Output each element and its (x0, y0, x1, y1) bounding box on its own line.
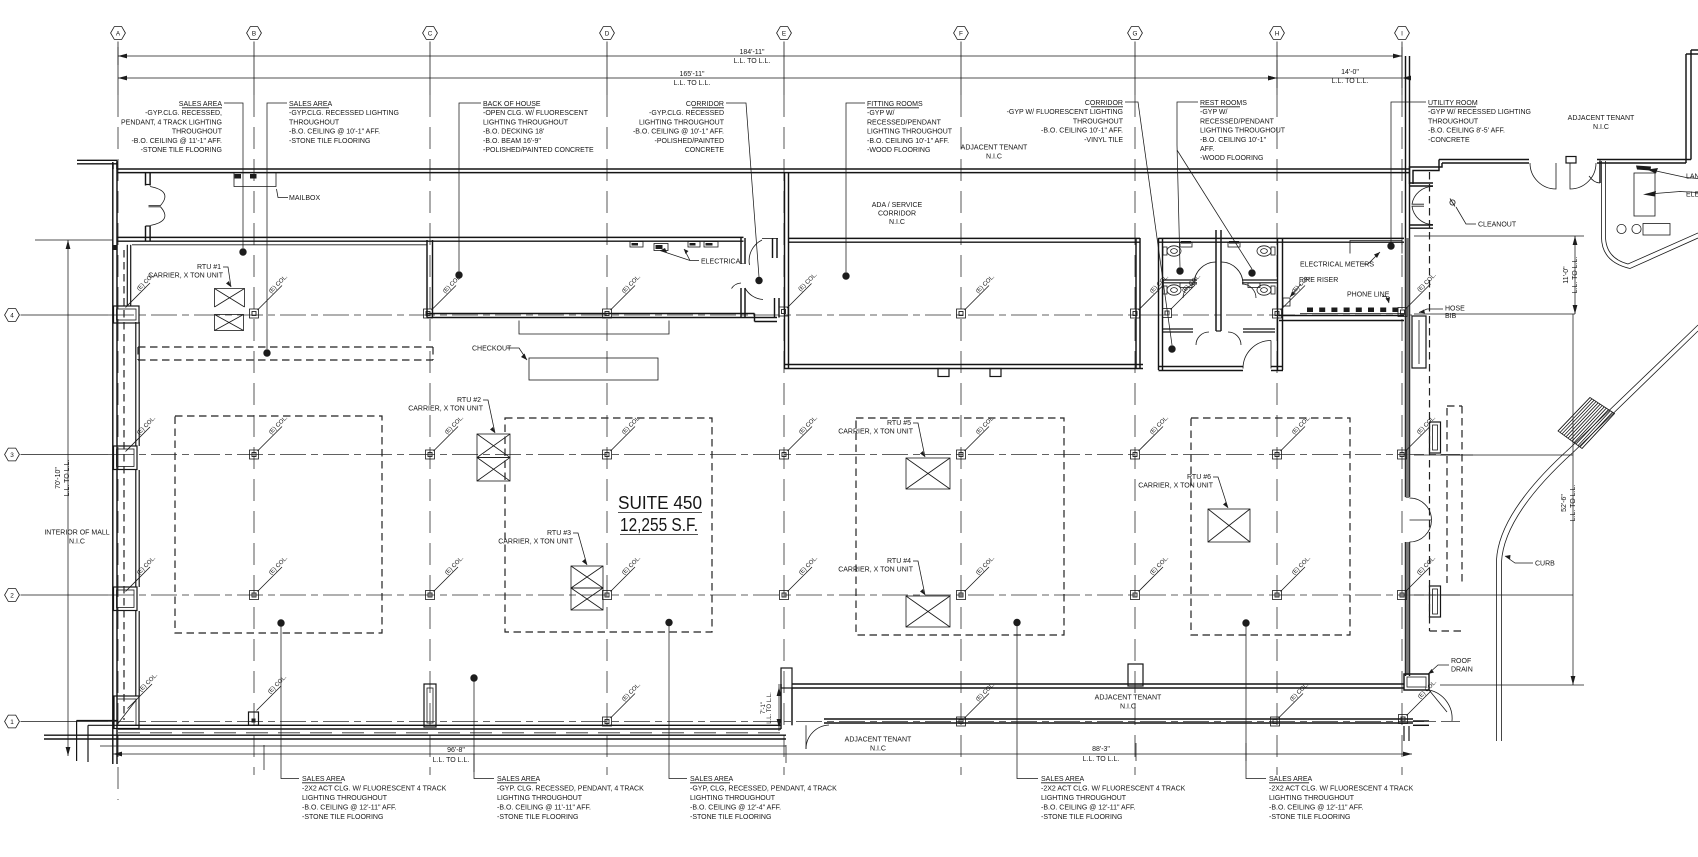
wall: restrooms west wall (1158, 238, 1160, 370)
column label grid3-430 (434, 427, 459, 452)
toilet left room upper (1163, 247, 1167, 255)
leader dot at 281,623 (277, 619, 284, 626)
grid line column B (solid stub from bubble) (253, 42, 255, 96)
svg-text:RTU #1: RTU #1 (197, 264, 221, 271)
door: adjacent tenant door at south step (805, 725, 807, 749)
svg-text:CORRIDOR: CORRIDOR (686, 101, 724, 108)
grid row 4 extension line / hose bib line (right) (1414, 313, 1575, 315)
svg-text:L.L. TO L.L.: L.L. TO L.L. (1572, 257, 1579, 294)
svg-text:L.L. TO L.L.: L.L. TO L.L. (64, 460, 71, 497)
column label grid3-784 (788, 427, 813, 452)
svg-text:-B.O. CEILING 8'-5' AFF.: -B.O. CEILING 8'-5' AFF. (1428, 128, 1505, 135)
column marker restroom west wall row4 (1163, 309, 1172, 318)
column label I row4 (1406, 284, 1431, 309)
svg-text:RTU #4: RTU #4 (887, 558, 911, 565)
grid line row 2 (solid stub from bubble) (21, 594, 109, 596)
svg-text:CHECKOUT: CHECKOUT (472, 346, 512, 353)
svg-text:PHONE LINE: PHONE LINE (1347, 292, 1390, 299)
svg-text:70'-10": 70'-10" (55, 467, 62, 489)
hatched concrete pad on curb (1558, 398, 1615, 449)
svg-text:N.I.C: N.I.C (69, 539, 85, 546)
grid bubble column C (423, 27, 438, 40)
grid line row 2 (dashed) (108, 594, 1460, 596)
svg-text:HOSE: HOSE (1445, 306, 1465, 313)
grid line row 1 (solid stub from bubble) (21, 721, 109, 723)
svg-text:-STONE TILE FLOORING: -STONE TILE FLOORING (690, 814, 771, 821)
column label grid3-254 (258, 427, 283, 452)
adjacent tenant storefront wall (north-east) (1410, 163, 1443, 184)
door: east wall door at service band (1410, 182, 1433, 184)
column marker grid3-1135 (1131, 450, 1140, 459)
svg-text:L.L. TO L.L.: L.L. TO L.L. (767, 692, 773, 724)
svg-text:L.L. TO L.L.: L.L. TO L.L. (1332, 78, 1369, 85)
svg-text:N.I.C: N.I.C (870, 746, 886, 753)
svg-text:RTU #3: RTU #3 (547, 530, 571, 537)
column marker grid3-607 (603, 450, 612, 459)
svg-text:96'-8": 96'-8" (447, 747, 465, 754)
svg-text:1: 1 (10, 719, 14, 726)
wall: fitting rooms north wall (788, 237, 1140, 239)
svg-text:CONCRETE: CONCRETE (685, 147, 725, 154)
svg-text:-B.O. CEILING @ 10'-1" AFF.: -B.O. CEILING @ 10'-1" AFF. (289, 129, 380, 136)
door: service corridor lower door (745, 288, 763, 300)
column label grid2-607 (611, 567, 636, 592)
RTU #3 unit symbol (571, 566, 603, 588)
svg-text:REST ROOMS: REST ROOMS (1200, 100, 1247, 107)
column label grid4-254 (258, 286, 283, 311)
leader dot at 669,622.5 (665, 619, 672, 626)
svg-text:LIGHTING THROUGHOUT: LIGHTING THROUGHOUT (1200, 128, 1286, 135)
column label A wall (128, 684, 153, 709)
wall: back-of-house east wall lower (740, 288, 742, 318)
svg-text:SALES AREA: SALES AREA (302, 776, 346, 783)
svg-text:CORRIDOR: CORRIDOR (1085, 100, 1123, 107)
door: mall entry double door upper leaf (149, 187, 165, 206)
dashed soffit line along west wall (123, 250, 125, 720)
svg-text:ADJACENT TENANT: ADJACENT TENANT (961, 145, 1028, 152)
column label grid1-607 (611, 694, 636, 719)
grid row 3 extension line (right) (1414, 454, 1573, 456)
column label grid3-1135 (1139, 427, 1164, 452)
dimension line 52'-6" LL. TO LL. (right) (1572, 314, 1574, 685)
svg-text:CARRIER, X TON UNIT: CARRIER, X TON UNIT (498, 539, 574, 546)
column label restroom west wall row4 (1171, 285, 1196, 310)
dashed ceiling soffit rectangle 1 (175, 416, 382, 633)
leader dot at 759,280.5 (755, 277, 762, 284)
curb curve with hatched pad (1497, 325, 1698, 741)
tenant wall corner return down to walkway (1599, 161, 1601, 184)
svg-text:-GYP W/: -GYP W/ (1200, 109, 1228, 116)
svg-text:H: H (1275, 31, 1280, 38)
svg-text:CLEANOUT: CLEANOUT (1478, 222, 1517, 229)
wall: restrooms south wall (1159, 366, 1244, 368)
svg-text:L.L. TO L.L.: L.L. TO L.L. (433, 757, 470, 764)
grid line column I (dashed) (1401, 95, 1403, 775)
dimension line 96'-8" LL. TO LL. (bottom-left) (113, 753, 786, 755)
svg-text:-B.O. CEILING @ 11'-11" AFF.: -B.O. CEILING @ 11'-11" AFF. (497, 805, 591, 812)
column marker grid2-1135 (1131, 591, 1140, 600)
svg-text:CARRIER, X TON UNIT: CARRIER, X TON UNIT (1138, 483, 1214, 490)
column marker grid2-430 (426, 591, 435, 600)
svg-text:E: E (782, 31, 786, 38)
wall: fitting rooms south wall (785, 364, 1144, 366)
column marker grid3-1402 (1398, 450, 1407, 459)
sidewalk edge curve (1606, 161, 1698, 264)
grid line row 4 (solid stub from bubble) (21, 314, 109, 316)
column marker grid4-1135 (1131, 309, 1140, 318)
door: restroom lower-left small arc (1196, 332, 1209, 345)
mailbox niche in north wall (234, 173, 276, 187)
column label grid3-961 (965, 427, 990, 452)
svg-text:FITTING ROOMS: FITTING ROOMS (867, 101, 923, 108)
column label grid4-428 (432, 286, 457, 311)
column marker corridor row4 (779, 307, 788, 316)
svg-text:B: B (252, 31, 256, 38)
door: mall entry double door lower leaf (149, 207, 165, 226)
leader dot at 267,353 (263, 349, 270, 356)
svg-text:C: C (428, 31, 433, 38)
grid line column C (dashed) (429, 95, 431, 775)
svg-text:3: 3 (10, 452, 14, 459)
wall: back-of-house west wall (426, 240, 428, 318)
column label I row1 (1407, 691, 1432, 716)
svg-text:CARRIER, X TON UNIT: CARRIER, X TON UNIT (838, 429, 914, 436)
svg-text:-WOOD FLOORING: -WOOD FLOORING (1200, 155, 1263, 162)
wall: bottom-left exterior step (77, 720, 118, 722)
storefront pier right of east wall (1412, 316, 1426, 368)
column marker grid4-961 (957, 309, 966, 318)
svg-text:52'-6": 52'-6" (1561, 494, 1568, 512)
column enclosure on west wall (grid A row box 2) (114, 587, 138, 611)
exterior small rectangle (1643, 224, 1670, 236)
small solid block at west wall top (113, 245, 117, 250)
svg-text:LIGHTING THROUGHOUT: LIGHTING THROUGHOUT (497, 795, 583, 802)
RTU #2 unit symbol (477, 434, 510, 458)
svg-text:A: A (116, 31, 121, 38)
svg-text:-CONCRETE: -CONCRETE (1428, 137, 1470, 144)
column tab at G/1 (1128, 664, 1143, 686)
wall: adjacent tenant wall below (east half) (824, 718, 1413, 720)
fire riser box (1283, 298, 1290, 306)
DOORS (149, 157, 1597, 750)
grid line column I (solid stub from bubble) (1401, 42, 1403, 96)
svg-text:ADA / SERVICE: ADA / SERVICE (872, 202, 923, 209)
svg-text:-STONE TILE FLOORING: -STONE TILE FLOORING (141, 147, 222, 154)
grid line column H (solid stub from bubble) (1276, 42, 1278, 96)
grid line column G (solid stub from bubble) (1134, 42, 1136, 96)
dimension 7'-1" LL. TO LL. at storefront step (778, 684, 780, 731)
leader dot at 1017,622.5 (1013, 619, 1020, 626)
svg-text:CARRIER, X TON UNIT: CARRIER, X TON UNIT (838, 567, 914, 574)
svg-text:SUITE 450: SUITE 450 (618, 493, 702, 513)
grid line column A (dashed) (117, 95, 119, 800)
svg-text:-STONE TILE FLOORING: -STONE TILE FLOORING (497, 814, 578, 821)
wall: restrooms south wall right of door (1271, 366, 1283, 368)
column marker grid2-1402 (1398, 591, 1407, 600)
column marker grid2-607 (603, 591, 612, 600)
dashed canopy outline right of east wall (1429, 172, 1431, 631)
landing rectangle (1634, 173, 1655, 216)
grid line column B (dashed) (253, 95, 255, 775)
svg-text:INTERIOR OF MALL: INTERIOR OF MALL (44, 530, 109, 537)
door: left restroom inner stall arc (1183, 284, 1197, 298)
wall: south suite wall (west half) (118, 724, 781, 726)
svg-text:-B.O. CEILING @ 10'-1" AFF.: -B.O. CEILING @ 10'-1" AFF. (633, 129, 724, 136)
door: restroom lower-right small arc (1228, 332, 1241, 345)
wall: south suite wall (east half) (792, 683, 1404, 685)
svg-text:L.L. TO L.L.: L.L. TO L.L. (674, 80, 711, 87)
svg-text:SALES AREA: SALES AREA (690, 776, 734, 783)
svg-text:N.I.C: N.I.C (1120, 704, 1136, 711)
svg-text:-GYP.CLG. RECESSED,: -GYP.CLG. RECESSED, (145, 110, 222, 117)
column marker grid4-428 (424, 309, 433, 318)
wall: west suite wall outer face (112, 241, 114, 764)
grid bubble column B (247, 27, 262, 40)
svg-text:-GYP.CLG. RECESSED LIGHTING: -GYP.CLG. RECESSED LIGHTING (289, 110, 399, 117)
svg-text:F: F (959, 31, 963, 38)
grid line column E (solid stub from bubble) (783, 42, 785, 96)
toilet right room lower (1271, 286, 1275, 294)
grid line column D (dashed) (606, 95, 608, 775)
svg-text:N.I.C: N.I.C (986, 154, 1002, 161)
column marker grid3-430 (426, 450, 435, 459)
restroom interior partition upper-left (1163, 279, 1198, 281)
door: right restroom inner stall arc (1242, 284, 1256, 298)
svg-text:-GYP, CLG, RECESSED, PENDANT,: -GYP, CLG, RECESSED, PENDANT, 4 TRACK (690, 786, 837, 793)
grid bubble column I (1395, 27, 1410, 40)
wall: fitting rooms east wall (1135, 238, 1137, 369)
svg-text:-VINYL TILE: -VINYL TILE (1084, 137, 1123, 144)
svg-text:D: D (605, 31, 610, 38)
dashed ceiling soffit rectangle 3 (856, 418, 1064, 635)
grid line row 4 (dashed) (108, 314, 1412, 316)
center mullion of tenant entry (1566, 157, 1576, 164)
svg-text:THROUGHOUT: THROUGHOUT (289, 119, 340, 126)
svg-text:SALES AREA: SALES AREA (289, 101, 333, 108)
leader dot at 846,276 (842, 272, 849, 279)
corner box at bottom-right of suite (1404, 674, 1429, 690)
restroom interior partition upper-right (1242, 279, 1278, 281)
column marker I row4 (1398, 308, 1407, 317)
RTU #4 unit symbol (906, 596, 950, 627)
column marker grid1-1275 (1271, 717, 1280, 726)
svg-text:-B.O. CEILING 10'-1" AFF.: -B.O. CEILING 10'-1" AFF. (1041, 128, 1123, 135)
svg-text:AFF.: AFF. (1200, 146, 1214, 153)
svg-text:-WOOD FLOORING: -WOOD FLOORING (867, 147, 930, 154)
adjacent tenant east wall at canvas edge (1685, 54, 1687, 163)
svg-text:N.I.C: N.I.C (1593, 124, 1609, 131)
column label grid4-1135 (1139, 286, 1164, 311)
svg-text:-B.O. CEILING @ 12'-11" AFF.: -B.O. CEILING @ 12'-11" AFF. (1041, 805, 1135, 812)
svg-text:-B.O. CEILING @ 12'-11" AFF.: -B.O. CEILING @ 12'-11" AFF. (302, 805, 396, 812)
wall: utility room south wall (1279, 315, 1404, 317)
svg-text:-GYP W/ FLUORESCENT LIGHTING: -GYP W/ FLUORESCENT LIGHTING (1007, 109, 1123, 116)
svg-text:SALES AREA: SALES AREA (1269, 776, 1313, 783)
RTU #5 unit symbol (906, 458, 950, 489)
wall: storefront inner face line (132, 244, 427, 246)
column label A wall (126, 427, 151, 452)
svg-text:-B.O. BEAM 16'-9": -B.O. BEAM 16'-9" (483, 138, 541, 145)
pilaster right of east wall (lower) (1430, 586, 1441, 617)
svg-text:LIGHTING THROUGHOUT: LIGHTING THROUGHOUT (690, 795, 776, 802)
grid line column A (solid stub from bubble) (117, 42, 119, 96)
dimension line 88'-3" LL. TO LL. (bottom-right) (786, 753, 1412, 755)
wall: back-of-house east wall upper (740, 238, 742, 264)
svg-text:BIB: BIB (1445, 313, 1457, 320)
grid line column H (dashed) (1276, 95, 1278, 775)
svg-text:-B.O. CEILING 10'-1": -B.O. CEILING 10'-1" (1200, 137, 1267, 144)
door: right restroom entry arc (1221, 262, 1243, 284)
svg-text:CURB: CURB (1535, 561, 1555, 568)
svg-text:I: I (1401, 31, 1403, 38)
grid line column E (dashed) (783, 95, 785, 775)
svg-text:THROUGHOUT: THROUGHOUT (172, 129, 223, 136)
grid bubble column A (111, 27, 126, 40)
grid line column G (dashed) (1134, 95, 1136, 775)
svg-text:88'-3": 88'-3" (1092, 746, 1110, 753)
svg-text:-GYP W/ RECESSED LIGHTING: -GYP W/ RECESSED LIGHTING (1428, 109, 1531, 116)
svg-text:BACK OF HOUSE: BACK OF HOUSE (483, 101, 541, 108)
dimension line 11'-0" LL. TO LL. (right) (1574, 236, 1576, 314)
column marker grid1-961 (957, 717, 966, 726)
column marker grid4-1277 (1273, 309, 1282, 318)
leader dot at 243,252 (239, 248, 246, 255)
svg-text:ADJACENT TENANT: ADJACENT TENANT (845, 737, 912, 744)
svg-text:-2X2 ACT CLG. W/ FLUORESCENT 4: -2X2 ACT CLG. W/ FLUORESCENT 4 TRACK (302, 786, 447, 793)
svg-text:165'-11": 165'-11" (679, 71, 705, 78)
door: south-east exit door swing (1429, 690, 1447, 712)
column marker grid2-254 (250, 591, 259, 600)
grid bubble column E (777, 27, 792, 40)
column label grid4-961 (965, 286, 990, 311)
svg-text:-OPEN CLG. W/ FLUORESCENT: -OPEN CLG. W/ FLUORESCENT (483, 110, 589, 117)
wall: restrooms north wall (1159, 237, 1284, 239)
grid line column F (solid stub from bubble) (960, 42, 962, 96)
grid bubble column G (1128, 27, 1143, 40)
column tab at B/1 (249, 712, 259, 725)
dimension line 70'-10" LL. TO LL. (left) (67, 240, 69, 756)
electrical meters bank (1350, 241, 1402, 254)
restroom sinks (1180, 243, 1192, 248)
svg-text:PENDANT, 4 TRACK LIGHTING: PENDANT, 4 TRACK LIGHTING (121, 119, 222, 126)
svg-text:ELECTRICAL: ELECTRICAL (701, 259, 744, 266)
svg-text:ADJACENT TENANT: ADJACENT TENANT (1568, 115, 1635, 122)
RTU #6 unit symbol (1208, 509, 1250, 542)
grid bubble row 3 (5, 448, 20, 461)
grid line column F (dashed) (960, 95, 962, 775)
RTU #1 unit symbol (215, 289, 245, 308)
svg-text:CORRIDOR: CORRIDOR (878, 211, 916, 218)
svg-text:ROOF: ROOF (1451, 658, 1471, 665)
GRIDLINES (35, 47, 1584, 772)
leader dot at 1180,271 (1176, 267, 1183, 274)
wall: west wing stub at top-left (77, 159, 117, 161)
grid bubble row 2 (5, 589, 20, 602)
dashed lease line between south walls (118, 732, 786, 734)
wall: north mall corridor wall (117, 168, 1409, 170)
svg-text:-B.O. CEILING 10'-1" AFF.: -B.O. CEILING 10'-1" AFF. (867, 138, 949, 145)
svg-text:-B.O. DECKING 18': -B.O. DECKING 18' (483, 129, 544, 136)
wall: utility room north wall (1283, 237, 1404, 239)
restroom interior partition lower-right (1243, 328, 1275, 330)
column tab at C/1 (424, 684, 436, 727)
door: restroom vestibule door to sales (1243, 341, 1271, 369)
svg-text:G: G (1133, 31, 1138, 38)
toilet right room upper (1271, 247, 1275, 255)
wall: back-of-house south wall (427, 313, 755, 315)
column label corridor row4 (787, 284, 812, 309)
svg-text:14'-0": 14'-0" (1341, 69, 1359, 76)
dashed ceiling soffit rectangle 2 (505, 418, 712, 632)
leader dot at 1246,623 (1242, 619, 1249, 626)
svg-text:THROUGHOUT: THROUGHOUT (1073, 118, 1124, 125)
electrical panels in back of house (630, 242, 643, 248)
wall: east suite wall upper (1405, 56, 1407, 497)
column label grid4-1277 (1281, 286, 1306, 311)
svg-text:RECESSED/PENDANT: RECESSED/PENDANT (1200, 118, 1275, 125)
column marker grid2-784 (780, 591, 789, 600)
exterior circles (bollards) (1617, 224, 1626, 233)
svg-text:12,255 S.F.: 12,255 S.F. (620, 515, 698, 535)
column label grid3-1402 (1406, 427, 1431, 452)
diagonal brace in corner column box A/1 (116, 699, 137, 726)
checkout counter upper (519, 321, 669, 335)
step in south suite wall at grid E (781, 668, 792, 688)
door: service corridor upper door (762, 238, 778, 240)
wall: suite entry jamb wall lower (145, 226, 147, 241)
svg-text:184'-11": 184'-11" (739, 49, 765, 56)
column label grid2-254 (258, 567, 283, 592)
column label grid2-430 (434, 567, 459, 592)
column label grid2-784 (788, 567, 813, 592)
column label grid3-607 (611, 427, 636, 452)
toilet left room lower (1163, 286, 1167, 294)
column label grid3-1277 (1281, 427, 1306, 452)
grid line row 3 (solid stub from bubble) (21, 454, 109, 456)
svg-text:4: 4 (10, 313, 14, 320)
svg-text:-STONE TILE FLOORING: -STONE TILE FLOORING (1269, 814, 1350, 821)
column marker I row1 (1399, 715, 1408, 724)
wall: restrooms east wall (1277, 238, 1279, 370)
column label grid2-1277 (1281, 567, 1306, 592)
svg-text:LIGHTING THROUGHOUT: LIGHTING THROUGHOUT (867, 129, 953, 136)
svg-text:CARRIER, X TON UNIT: CARRIER, X TON UNIT (148, 273, 224, 280)
svg-text:LIGHTING THROUGHOUT: LIGHTING THROUGHOUT (483, 119, 569, 126)
grid row 2 extension line (right) (1414, 594, 1573, 596)
svg-text:ADJACENT TENANT: ADJACENT TENANT (1095, 695, 1162, 702)
column marker grid4-607 (603, 309, 612, 318)
grid bubble column H (1270, 27, 1285, 40)
leader dot at 1252,273 (1248, 269, 1255, 276)
svg-text:RTU #2: RTU #2 (457, 397, 481, 404)
door: left restroom entry arc (1194, 262, 1216, 284)
grid bubble row 4 (5, 309, 20, 322)
column label grid2-961 (965, 567, 990, 592)
wall: corridor east jamb upper (772, 238, 774, 258)
svg-text:LIGHTING THROUGHOUT: LIGHTING THROUGHOUT (302, 795, 388, 802)
column enclosure on west wall (grid A row box 3) (114, 696, 139, 729)
svg-text:ELECTRICAL METERS: ELECTRICAL METERS (1300, 262, 1374, 269)
grid bubble row 1 (5, 715, 20, 728)
wall: east suite wall lower (1405, 542, 1407, 676)
wall: west mall corridor wall (112, 162, 114, 241)
leader dot at 1172,349 (1168, 345, 1175, 352)
svg-text:LANDING: LANDING (1686, 174, 1698, 181)
svg-text:-GYP.CLG. RECESSED: -GYP.CLG. RECESSED (649, 110, 724, 117)
svg-text:-B.O. CEILING @ 12'-4" AFF.: -B.O. CEILING @ 12'-4" AFF. (690, 805, 781, 812)
wall: restrooms center wall (1215, 230, 1217, 331)
column enclosure on west wall (grid A row box 0) (114, 306, 140, 323)
